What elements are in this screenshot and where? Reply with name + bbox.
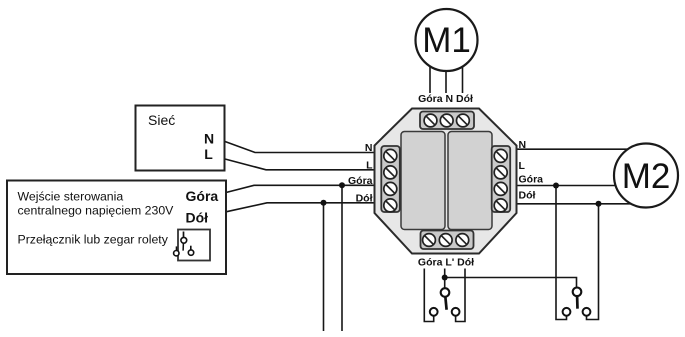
terminal block left [381,146,400,212]
wire branch down from Dol control [323,203,325,331]
junction Gora control branch [339,182,345,188]
wire M1 N lead [445,71,447,93]
module right half cover [448,132,492,230]
box Siec [136,106,225,171]
box switch symbol [174,230,210,261]
svg-text:Góra N Dół: Góra N Dół [418,93,473,105]
wire module Gora to motor M2 [517,185,623,187]
svg-text:N: N [365,142,373,154]
module left half cover [401,132,445,230]
svg-text:Przełącznik lub zegar rolety: Przełącznik lub zegar rolety [18,233,169,247]
switch S1 contact Dol [452,308,460,316]
svg-text:L: L [366,160,373,172]
junction M2 Dol branch [596,201,602,207]
svg-text:Sieć: Sieć [148,112,175,128]
motor M2 [614,144,678,208]
box central control input [7,181,226,275]
switch S2 contact Gora [563,308,571,316]
wire branch down from M2 Gora to right switch [556,186,567,320]
svg-text:N: N [519,139,527,151]
junction M2 Gora branch [553,183,559,189]
wire module bottom Dol to left switch contact [456,269,465,322]
svg-text:M1: M1 [422,21,471,60]
switch S1 pole [441,288,450,310]
relay module body [375,109,517,254]
wire mains L from Siec box to module [225,159,375,170]
wire module bottom L' to left switch pole [444,269,446,289]
wire mains N from Siec box to module [225,142,375,153]
svg-text:L: L [204,146,213,162]
terminal block top [420,112,474,130]
junction L' feed [442,275,448,281]
wire module N to motor M2 [517,148,641,150]
svg-text:Dół: Dół [519,190,536,202]
wire M1 Gora lead [429,66,431,93]
wire central control Dol to module [226,203,375,212]
wire module Dol to motor M2 [517,203,638,205]
wire branch down from Gora control [341,185,343,331]
motor M1 [416,9,478,71]
svg-text:Góra: Góra [186,188,219,204]
svg-text:centralnego napięciem 230V: centralnego napięciem 230V [18,204,175,218]
svg-text:L: L [519,160,526,172]
wire central control Gora to module [226,185,375,192]
wire L' feed to right switch pole [445,278,577,288]
terminal block right [492,146,511,212]
svg-text:Góra: Góra [519,174,544,186]
switch S1 contact Gora [430,308,438,316]
wire branch down from M2 Dol to right switch [587,204,599,320]
svg-text:Góra: Góra [348,175,373,187]
wire M1 Dol lead [462,66,464,93]
switch S2 pole [573,288,582,309]
svg-text:M2: M2 [622,157,671,196]
switch S2 contact Dol [583,308,591,316]
svg-text:Góra L' Dół: Góra L' Dół [418,257,474,269]
svg-text:Wejście sterowania: Wejście sterowania [18,190,124,204]
terminal block bottom [421,231,474,250]
svg-text:N: N [204,131,214,147]
svg-text:Dół: Dół [186,210,209,226]
wire module bottom Gora to left switch contact [424,269,433,322]
svg-text:Dół: Dół [356,193,373,205]
junction Dol control branch [321,200,327,206]
